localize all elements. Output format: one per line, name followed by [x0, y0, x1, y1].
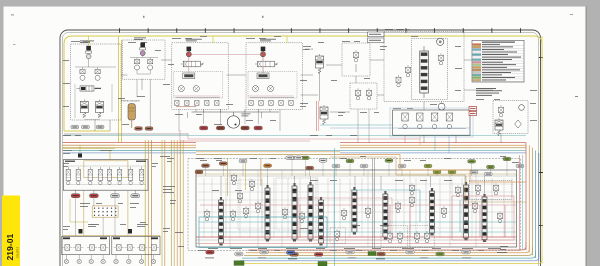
valve V21 — [396, 201, 401, 213]
wire: gray verticals texture in bank — [204, 178, 512, 238]
valve group: hydraulic fan/brake block B4 — [246, 39, 302, 110]
valve V17 — [283, 207, 288, 219]
valve group: solenoid bank B8 — [393, 103, 470, 135]
valve group: pilot control rows B — [112, 236, 160, 254]
valve group: main control B7 — [384, 29, 464, 102]
oval — [295, 156, 303, 160]
wire: yellow feeders into B3/B4 — [89, 36, 287, 46]
node labels: accumulator — [135, 127, 143, 131]
wire — [62, 147, 115, 149]
valve V10 — [238, 191, 243, 203]
sticker: part label 219-01 — [2, 196, 20, 266]
spool valve S1 — [219, 197, 224, 246]
valve V27 — [410, 183, 415, 195]
wire: pilot supply (yellow loop) — [64, 36, 542, 131]
valve V14 — [231, 209, 236, 221]
valve V24 — [456, 185, 461, 197]
node labels: main bank top — [202, 164, 210, 168]
accumulator: steering — [121, 100, 141, 121]
bottom cut-off valve glyphs — [64, 255, 156, 264]
tank symbol (green) 2 — [234, 261, 244, 266]
main bank inner frame — [196, 170, 517, 247]
wire: pressure line (red) — [196, 236, 516, 238]
wire: short verticals right of bank — [520, 155, 523, 250]
valve V25 — [473, 201, 478, 213]
wire — [121, 40, 123, 143]
wire: box drop lines — [179, 109, 280, 131]
wire — [199, 221, 516, 223]
wire bus: supply lines (horizontal) — [63, 143, 526, 155]
wire: cyan vertical at 334 — [333, 148, 335, 266]
wire: long teal line — [63, 135, 526, 137]
valves in dashed sub-boxes — [335, 229, 430, 243]
wire: B8 to bus connectors — [405, 135, 449, 153]
wire: tan drops to lower boxes — [62, 190, 160, 235]
wire: pink loops in bank — [298, 196, 514, 240]
wire: red verticals near 317 — [317, 101, 319, 131]
wire: tan staircase — [330, 157, 526, 202]
wire — [64, 130, 110, 132]
green rect small — [368, 252, 376, 256]
wire: dark verticals to rows — [76, 198, 115, 237]
relief valve V5 — [305, 48, 324, 74]
valve V23 — [442, 206, 447, 218]
wire: B2 drops — [137, 79, 150, 131]
spool valve S4 — [308, 182, 313, 242]
tank symbol (green) 3 — [318, 262, 327, 266]
wire: olive drops into ride box — [80, 145, 110, 160]
node labels: main bank bottom — [206, 250, 215, 254]
wire: upper link olive — [196, 173, 516, 175]
wire: cyan link top half — [320, 124, 392, 126]
valve V15 — [244, 206, 249, 218]
annotation specks top half — [63, 29, 537, 136]
legend note text — [476, 88, 502, 96]
node labels below B1 — [71, 125, 79, 129]
filter valve V7 — [495, 118, 503, 136]
solenoids above rows — [79, 224, 149, 234]
node labels below transmission block — [71, 194, 80, 198]
pilot valve V6 — [320, 105, 328, 125]
wire — [350, 190, 420, 222]
wire — [191, 111, 279, 113]
wire: oval drop ticks — [206, 160, 508, 176]
wire: gray horizontals texture in bank — [198, 184, 514, 228]
wire: orange staircase — [340, 155, 526, 182]
valve V11 — [250, 179, 255, 191]
valve V13 — [205, 209, 210, 221]
wire: orange feeders top-left of lower half — [63, 142, 80, 144]
spool valve S8 — [430, 188, 435, 236]
wire: dark double verticals — [373, 158, 375, 248]
wire — [131, 120, 133, 128]
valve group: transmission control block — [63, 154, 148, 191]
wire: blue link — [330, 128, 470, 135]
vertical connectors top half — [95, 72, 501, 143]
wire — [188, 133, 420, 139]
wire — [118, 36, 120, 143]
valve group: main control valve bank — [188, 159, 521, 251]
valve group: pilot control rows A — [62, 236, 110, 254]
valve group: steering pilot B2 — [123, 38, 166, 80]
schematic sheet border — [60, 28, 541, 266]
valve V16 — [256, 201, 261, 213]
valve V26 — [498, 211, 503, 223]
svg-text:VALVE GP - MAIN: VALVE GP - MAIN — [396, 29, 411, 32]
node labels below B3/B4 — [199, 126, 208, 130]
main bank internal rails — [196, 170, 517, 247]
wire bus: left vertical bundle — [145, 140, 183, 266]
valve group: pilot oil manifold B9 — [493, 101, 528, 134]
wire: pilot lines (olive) — [228, 158, 261, 196]
svg-text:COLOR 2: COLOR 2 — [16, 246, 19, 258]
valve group: right pilot sub-box — [469, 180, 512, 199]
svg-text:STEER ACCUMULATOR: STEER ACCUMULATOR — [121, 100, 141, 103]
pump text — [241, 114, 250, 117]
annotation text specks — [63, 150, 507, 253]
spool valve S5 — [319, 197, 324, 246]
wire — [200, 204, 516, 206]
wire — [62, 144, 115, 146]
spool valve S6 — [352, 187, 357, 235]
wire bus: bottom wrap — [238, 242, 542, 264]
node labels: extra oval pair — [286, 156, 294, 160]
valve V22 — [410, 195, 415, 207]
light blue frame around B8 — [390, 108, 473, 137]
wire — [196, 109, 270, 112]
wire: box-to-oval drops — [76, 190, 136, 194]
indicator boxes (red) — [469, 107, 477, 116]
annotation specks bottom half — [63, 156, 519, 251]
wire — [459, 200, 461, 232]
valve group: hydraulic fan/brake block B3 — [172, 39, 228, 110]
wire: pink internals top half — [174, 57, 294, 96]
svg-text:219-01: 219-01 — [5, 234, 15, 261]
wire — [300, 205, 505, 237]
spool valve S7 — [383, 191, 388, 240]
valve V20 — [366, 206, 371, 218]
text specks under bottom ovals — [205, 258, 471, 260]
wire: pink link between B3 and B4 — [192, 53, 261, 55]
dashed sub-sections in main bank — [238, 178, 434, 248]
pump: torque converter — [227, 112, 239, 128]
valve V18 — [300, 211, 305, 223]
oval blue — [286, 251, 295, 255]
spool hangers — [221, 176, 485, 197]
connector: terminal strip — [92, 206, 118, 217]
valve V19 — [342, 208, 347, 220]
wire: dark return line — [64, 133, 188, 135]
border tick right — [539, 172, 543, 173]
valve group: pilot control block B1 — [71, 41, 121, 121]
valve block B6 — [350, 83, 377, 109]
wire: maroon stub — [176, 106, 196, 108]
wire: gray verticals below B6 — [358, 109, 369, 143]
spool valve S9 — [464, 182, 469, 241]
wire — [199, 231, 516, 233]
wire — [196, 243, 516, 245]
valve V12 — [232, 173, 237, 185]
legend: line color key — [472, 40, 524, 82]
spool valve S3 — [292, 183, 297, 242]
breaker boxes — [368, 32, 385, 43]
wire: pink feeder from top half — [180, 130, 310, 141]
interconnect wires (dark) — [121, 60, 493, 112]
spool valve S2 — [265, 185, 270, 242]
wire bus: right vertical drop — [526, 36, 542, 264]
scan marks — [11, 14, 14, 17]
check valve block B5 — [342, 43, 370, 76]
wire: cooler return (cyan loop) — [199, 217, 327, 248]
spool valve S10 — [482, 194, 487, 242]
